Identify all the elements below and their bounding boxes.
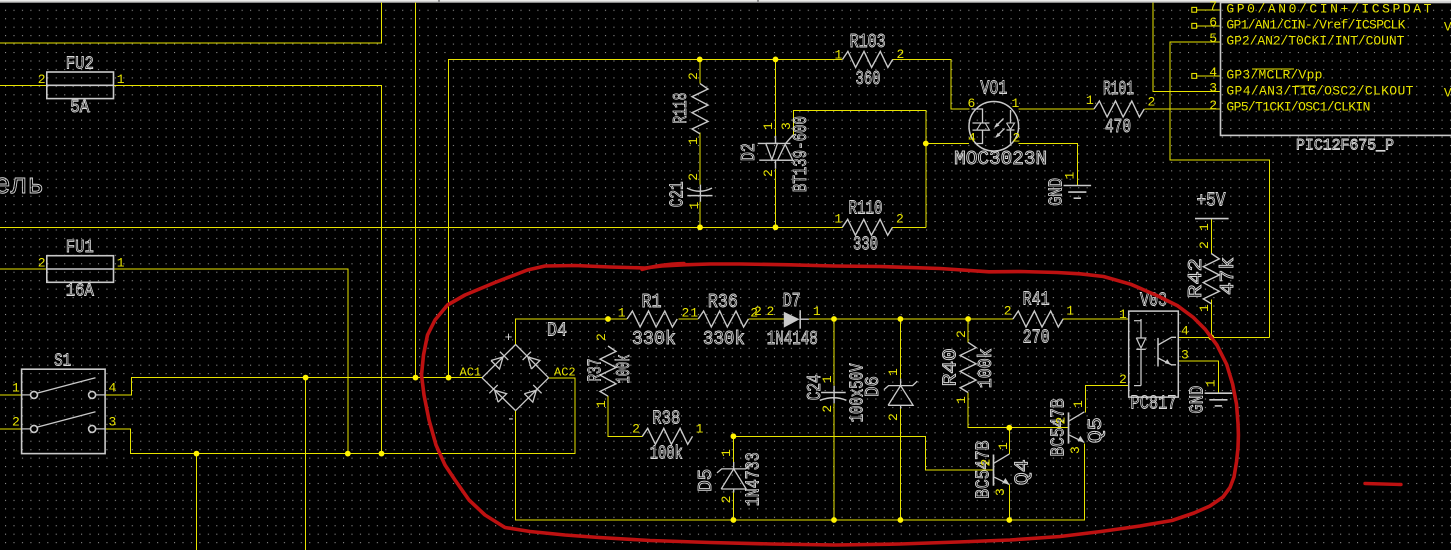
svg-text:R101: R101 bbox=[1103, 78, 1134, 100]
wire +5V to R42 bbox=[1210, 219, 1212, 254]
svg-text:VO1: VO1 bbox=[980, 78, 1007, 100]
optocoupler VO3 bbox=[1129, 311, 1179, 397]
junction node 4 bbox=[773, 224, 779, 230]
junction node 3 bbox=[697, 224, 703, 230]
resistor R41 bbox=[1013, 311, 1063, 327]
svg-text:5: 5 bbox=[1209, 31, 1217, 46]
svg-text:1: 1 bbox=[1197, 304, 1212, 312]
svg-text:+5V: +5V bbox=[1197, 190, 1226, 212]
microcontroller U1 PIC12F675 bbox=[1221, 3, 1451, 136]
wire R118 top bbox=[699, 59, 701, 83]
svg-text:V: V bbox=[1444, 86, 1451, 101]
svg-text:3: 3 bbox=[1181, 348, 1189, 363]
svg-text:1: 1 bbox=[594, 400, 609, 408]
wire FU1 left bbox=[0, 268, 47, 270]
svg-text:270: 270 bbox=[1023, 326, 1050, 348]
wire D7 to R41 bbox=[809, 318, 1013, 320]
optocoupler VO1 bbox=[969, 102, 1019, 152]
svg-text:2: 2 bbox=[1209, 98, 1217, 113]
svg-text:2: 2 bbox=[1148, 94, 1156, 109]
wire ground rail from bridge minus to Q5 emitter bbox=[516, 411, 1085, 520]
wire FU2 right down to bottom node bbox=[114, 85, 382, 453]
wire S1 pin3 to AC2 bbox=[105, 378, 575, 454]
svg-text:1: 1 bbox=[117, 72, 125, 87]
wire S1 pin1 bbox=[0, 394, 22, 396]
svg-text:47k: 47k bbox=[1217, 257, 1239, 295]
fuse FU1 bbox=[47, 256, 114, 283]
svg-text:1: 1 bbox=[886, 368, 901, 376]
svg-text:1: 1 bbox=[696, 422, 704, 437]
junction node 1 bbox=[697, 57, 703, 63]
wire top-left to mains bbox=[0, 3, 382, 44]
svg-text:BC547B: BC547B bbox=[1047, 399, 1069, 457]
svg-text:2: 2 bbox=[767, 304, 775, 319]
svg-text:R36: R36 bbox=[708, 291, 738, 313]
svg-text:2: 2 bbox=[761, 169, 776, 177]
wire R36 to D7 bbox=[748, 318, 783, 320]
svg-text:100k: 100k bbox=[650, 442, 683, 464]
junction node 13 bbox=[413, 375, 419, 381]
svg-text:V: V bbox=[1444, 20, 1451, 35]
svg-text:R37: R37 bbox=[584, 359, 606, 382]
wire D6 bottom bbox=[899, 405, 901, 520]
wire S1 pin2 bbox=[0, 428, 22, 430]
svg-text:R1: R1 bbox=[642, 291, 662, 313]
wire VO3 pin3 to GND bbox=[1178, 361, 1218, 393]
svg-text:ель: ель bbox=[0, 169, 44, 202]
wire PIC pin7 stub bbox=[1197, 9, 1221, 11]
wire FU2 left bbox=[0, 84, 47, 86]
svg-text:2: 2 bbox=[12, 415, 20, 430]
svg-text:3: 3 bbox=[779, 122, 794, 130]
svg-text:1: 1 bbox=[813, 304, 821, 319]
red annotation circle bbox=[422, 264, 1239, 545]
junction node 16 bbox=[345, 451, 351, 457]
wire C21 top to R118 bbox=[699, 133, 701, 185]
wire C24 top bbox=[833, 319, 835, 386]
svg-text:+: + bbox=[505, 330, 513, 345]
wire PIC pin5 to VO3 pin4 net bbox=[1170, 42, 1269, 338]
wire FU1 right down bbox=[114, 269, 348, 454]
svg-text:2: 2 bbox=[820, 405, 835, 413]
svg-text:3: 3 bbox=[993, 488, 1008, 496]
wire S1 pin4 to AC1 bbox=[105, 378, 482, 395]
svg-text:Q4: Q4 bbox=[1011, 459, 1033, 485]
svg-text:BC547B: BC547B bbox=[972, 441, 994, 499]
junction node 7 bbox=[831, 316, 837, 322]
wire D5 top bbox=[732, 436, 734, 462]
wire C24 bottom bbox=[833, 403, 835, 520]
wire down from node A bbox=[196, 454, 198, 550]
bridge rectifier D4 bbox=[482, 345, 516, 378]
wire VO1 pin4 bbox=[926, 143, 969, 145]
wire D5 bottom bbox=[732, 489, 734, 520]
svg-text:6: 6 bbox=[968, 96, 976, 111]
svg-text:R118: R118 bbox=[670, 93, 692, 124]
zener diode D6 bbox=[888, 386, 913, 406]
svg-text:1: 1 bbox=[1203, 379, 1218, 387]
svg-text:1: 1 bbox=[719, 449, 734, 457]
svg-text:16A: 16A bbox=[66, 282, 94, 302]
svg-text:2: 2 bbox=[1119, 372, 1127, 387]
wire bottom rail of triac circuit bbox=[0, 226, 842, 228]
wire Q4 collector bbox=[1008, 428, 1010, 455]
diode D7 bbox=[784, 312, 800, 328]
svg-text:100k: 100k bbox=[613, 355, 635, 384]
svg-text:2: 2 bbox=[686, 72, 701, 80]
wire C21 bottom bbox=[699, 202, 701, 228]
svg-text:1: 1 bbox=[1086, 93, 1094, 108]
svg-text:D4: D4 bbox=[547, 319, 567, 341]
triac D2 bbox=[758, 142, 791, 144]
resistor R101 bbox=[1094, 101, 1144, 117]
svg-text:3: 3 bbox=[1209, 81, 1217, 96]
svg-text:2: 2 bbox=[754, 304, 762, 319]
wire VO1 pin2 to GND bbox=[1019, 144, 1078, 186]
svg-text:PIC12F675_P: PIC12F675_P bbox=[1296, 137, 1394, 155]
wire VO3 pin4 bbox=[1178, 336, 1269, 338]
svg-text:GP5/T1CKI/OSC1/CLKIN: GP5/T1CKI/OSC1/CLKIN bbox=[1226, 99, 1370, 114]
svg-text:2: 2 bbox=[38, 72, 46, 87]
ground GND2 bbox=[1205, 392, 1233, 394]
svg-text:R41: R41 bbox=[1023, 289, 1050, 311]
top toolbar edge bbox=[0, 0, 1451, 2]
wire D6 top bbox=[899, 319, 901, 379]
svg-text:2: 2 bbox=[954, 330, 969, 338]
svg-text:1: 1 bbox=[820, 375, 835, 383]
svg-text:R42: R42 bbox=[1185, 258, 1207, 298]
svg-text:4: 4 bbox=[968, 131, 976, 146]
junction node 11 bbox=[1006, 425, 1012, 431]
wire Q4 emitter bbox=[1008, 485, 1010, 520]
resistor R38 bbox=[642, 428, 692, 444]
svg-text:1: 1 bbox=[686, 137, 701, 145]
svg-text:330k: 330k bbox=[703, 328, 745, 350]
junction node 9 bbox=[965, 316, 971, 322]
wire R101 to PIC pin2 bbox=[1144, 108, 1220, 110]
svg-text:D7: D7 bbox=[783, 290, 801, 312]
svg-text:2: 2 bbox=[686, 173, 701, 181]
svg-text:1: 1 bbox=[687, 202, 702, 210]
junction node 21 bbox=[1006, 517, 1012, 523]
svg-text:1: 1 bbox=[1066, 303, 1074, 318]
svg-text:330k: 330k bbox=[632, 328, 676, 350]
wire R40 top bbox=[967, 319, 969, 342]
svg-text:100k: 100k bbox=[975, 348, 997, 388]
wire triac top rail bbox=[449, 59, 843, 377]
junction node 22 bbox=[1208, 334, 1214, 340]
junction node 5 bbox=[923, 141, 929, 147]
svg-text:GND: GND bbox=[1186, 386, 1208, 414]
svg-text:3: 3 bbox=[1068, 446, 1083, 454]
svg-text:R103: R103 bbox=[850, 31, 886, 53]
resistor R1 bbox=[627, 311, 677, 327]
svg-text:AC2: AC2 bbox=[554, 366, 576, 380]
wire VO3 pin2 to Q5 collector bbox=[1086, 386, 1129, 413]
svg-text:GP2/AN2/T0CKI/INT/COUNT: GP2/AN2/T0CKI/INT/COUNT bbox=[1226, 34, 1404, 49]
svg-text:MOC3023N: MOC3023N bbox=[954, 148, 1047, 170]
transistor Q4 bbox=[993, 455, 995, 486]
svg-text:PC817: PC817 bbox=[1131, 393, 1177, 415]
svg-text:R38: R38 bbox=[652, 407, 680, 429]
resistor R40 bbox=[960, 342, 976, 392]
power +5V bbox=[1195, 218, 1229, 220]
wire R110 pin2 bbox=[892, 226, 926, 228]
junction node 15 bbox=[194, 451, 200, 457]
svg-text:AC1: AC1 bbox=[460, 366, 482, 380]
svg-text:1: 1 bbox=[1197, 223, 1212, 231]
svg-text:FU2: FU2 bbox=[66, 55, 94, 75]
svg-text:GP4/AN3/T1G/OSC2/CLKOUT: GP4/AN3/T1G/OSC2/CLKOUT bbox=[1226, 83, 1413, 98]
svg-text:D6: D6 bbox=[862, 376, 884, 397]
junction node 19 bbox=[831, 517, 837, 523]
svg-text:2: 2 bbox=[1013, 131, 1021, 146]
svg-text:1: 1 bbox=[12, 381, 20, 396]
capacitor C24 bbox=[833, 386, 835, 404]
svg-text:GP1/AN1/CIN-/Vref/ICSPCLK: GP1/AN1/CIN-/Vref/ICSPCLK bbox=[1226, 18, 1405, 33]
svg-text:1: 1 bbox=[954, 396, 969, 404]
svg-text:4: 4 bbox=[109, 381, 117, 396]
junction node 12 bbox=[303, 375, 309, 381]
wire R38 to Q4 base bbox=[733, 436, 993, 470]
svg-text:1: 1 bbox=[618, 305, 626, 320]
resistor R103 bbox=[843, 51, 893, 67]
svg-text:1: 1 bbox=[835, 48, 843, 63]
svg-text:360: 360 bbox=[856, 68, 881, 90]
svg-text:1: 1 bbox=[834, 211, 842, 226]
svg-text:1: 1 bbox=[761, 122, 776, 130]
svg-text:1: 1 bbox=[117, 256, 125, 271]
svg-text:Q5: Q5 bbox=[1085, 417, 1107, 443]
ground GND1 bbox=[1064, 185, 1092, 187]
svg-text:330: 330 bbox=[853, 233, 878, 255]
junction node 18 bbox=[731, 517, 737, 523]
junction node 10 bbox=[731, 433, 737, 439]
svg-text:2: 2 bbox=[979, 459, 994, 467]
svg-text:1: 1 bbox=[1012, 96, 1020, 111]
junction node 20 bbox=[898, 517, 904, 523]
wire R40 bottom to Q5 base bbox=[968, 393, 1068, 428]
svg-text:6: 6 bbox=[1209, 15, 1217, 30]
svg-text:1: 1 bbox=[1071, 400, 1086, 408]
svg-text:2: 2 bbox=[682, 305, 690, 320]
svg-text:FU1: FU1 bbox=[66, 238, 94, 258]
wire R37 bottom to R38 bbox=[608, 396, 642, 436]
wire D2 top bbox=[775, 59, 777, 135]
junction node 8 bbox=[898, 316, 904, 322]
wire vertical from top to AC1 net bbox=[415, 3, 417, 378]
svg-text:C21: C21 bbox=[666, 181, 688, 207]
svg-text:GP3/MCLR/Vpp: GP3/MCLR/Vpp bbox=[1226, 68, 1322, 83]
svg-text:5A: 5A bbox=[70, 98, 89, 118]
svg-text:GND: GND bbox=[1045, 178, 1067, 206]
svg-text:470: 470 bbox=[1105, 116, 1131, 138]
wire bridge plus to R1 bbox=[516, 319, 608, 345]
svg-text:2: 2 bbox=[1004, 303, 1012, 318]
svg-text:2: 2 bbox=[719, 496, 734, 504]
svg-text:1N4148: 1N4148 bbox=[767, 328, 818, 350]
svg-text:R40: R40 bbox=[940, 348, 962, 386]
wire VO1 pin1 to R101 bbox=[1019, 108, 1094, 110]
wire PIC pin3 from top bbox=[1153, 3, 1221, 92]
svg-text:2: 2 bbox=[632, 422, 640, 437]
svg-text:2: 2 bbox=[594, 333, 609, 341]
junction node 2 bbox=[773, 57, 779, 63]
svg-text:3: 3 bbox=[109, 415, 117, 430]
svg-text:2: 2 bbox=[897, 47, 905, 62]
wire PIC pin4 stub bbox=[1197, 75, 1221, 77]
svg-text:2: 2 bbox=[886, 413, 901, 421]
resistor R36 bbox=[698, 311, 748, 327]
svg-text:-: - bbox=[507, 412, 515, 428]
wire R42 bottom bbox=[1210, 300, 1212, 338]
fuse FU2 bbox=[47, 72, 114, 99]
svg-text:S1: S1 bbox=[54, 352, 71, 372]
wire R1 to R36 bbox=[679, 318, 699, 320]
wire PIC pin6 stub bbox=[1197, 25, 1221, 27]
svg-text:2: 2 bbox=[1197, 241, 1212, 249]
resistor R118 bbox=[692, 84, 708, 134]
wire D2 gate to VO1 pin4 net bbox=[793, 110, 926, 227]
wire R1 pin1 bbox=[608, 318, 627, 320]
svg-text:1: 1 bbox=[996, 442, 1011, 450]
switch S1 bbox=[22, 369, 106, 453]
junction node 14 bbox=[446, 375, 452, 381]
capacitor C21 bbox=[699, 185, 701, 202]
wire R41 to VO3 pin1 bbox=[1062, 318, 1128, 320]
svg-text:4: 4 bbox=[1181, 324, 1189, 339]
junction node 6 bbox=[605, 316, 611, 322]
svg-text:D2: D2 bbox=[738, 143, 760, 161]
svg-text:2: 2 bbox=[38, 256, 46, 271]
resistor R110 bbox=[842, 219, 892, 235]
svg-text:1: 1 bbox=[1062, 172, 1077, 180]
wire down from node B bbox=[305, 378, 307, 550]
svg-text:R110: R110 bbox=[849, 198, 883, 220]
wire R103 to VO1 pin6 bbox=[893, 59, 970, 109]
svg-text:7: 7 bbox=[1209, 0, 1217, 14]
resistor R42 bbox=[1203, 254, 1219, 304]
svg-text:1: 1 bbox=[690, 305, 698, 320]
svg-text:2: 2 bbox=[1054, 417, 1069, 425]
svg-text:2: 2 bbox=[896, 211, 904, 226]
svg-text:1: 1 bbox=[1119, 307, 1127, 322]
svg-text:D5: D5 bbox=[695, 469, 717, 492]
zener diode D5 bbox=[721, 469, 746, 489]
svg-text:1N4733: 1N4733 bbox=[743, 452, 765, 506]
transistor Q5 bbox=[1068, 412, 1070, 443]
red annotation dash bbox=[1365, 484, 1401, 485]
svg-text:4: 4 bbox=[1209, 65, 1217, 80]
wire D2 bottom bbox=[775, 169, 777, 228]
resistor R37 bbox=[600, 346, 616, 396]
junction node 17 bbox=[379, 451, 385, 457]
